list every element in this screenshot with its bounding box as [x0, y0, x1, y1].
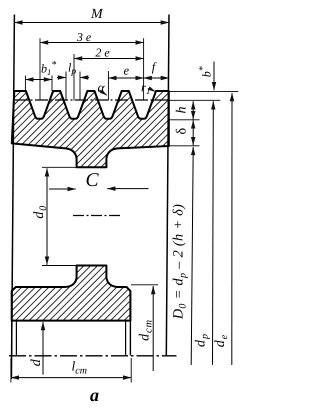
- dimension line dp: [212, 101, 215, 365]
- hole axis dash-dot: [73, 215, 122, 217]
- dimension d_st hub diameter: [131, 284, 158, 286]
- dimension 2e: [73, 54, 75, 101]
- svg-text:d: d: [29, 358, 44, 366]
- dimension d bore: [42, 322, 44, 375]
- svg-text:h: h: [175, 107, 190, 114]
- dimension M: [14, 22, 169, 24]
- svg-text:D0 = dр – 2 (h + δ): D0 = dр – 2 (h + δ): [171, 204, 189, 320]
- web lower ring and hub section (hatched): [12, 266, 131, 321]
- hub right face below bore: [129, 321, 131, 356]
- dimension b*: [169, 90, 239, 92]
- svg-text:e: e: [124, 63, 130, 77]
- dimension C web thickness: [49, 188, 76, 190]
- groove bottom extension line: [169, 119, 200, 121]
- r1 leader arrow: [150, 89, 155, 92]
- dimension f: [144, 77, 169, 79]
- alpha leader arrow: [100, 90, 107, 95]
- dimension line D0: [191, 147, 193, 365]
- svg-text:α: α: [98, 80, 106, 95]
- rim inner extension line: [169, 145, 200, 147]
- rim section with V-grooves (hatched): [12, 91, 169, 167]
- dimension delta: [192, 120, 194, 145]
- svg-text:δ: δ: [175, 128, 190, 135]
- svg-text:3 e: 3 e: [76, 30, 92, 44]
- main axis dash-dot: [9, 355, 177, 357]
- bore chamfer edge left: [15, 321, 17, 355]
- dimension 3e: [39, 38, 41, 100]
- svg-text:а: а: [90, 385, 99, 405]
- svg-text:2 e: 2 e: [95, 46, 110, 60]
- dimension lp pitch width: [65, 72, 67, 101]
- dimension d0 hole diameter: [42, 166, 77, 168]
- dimension b1* groove top width: [24, 76, 26, 92]
- bore chamfer edge right: [125, 321, 127, 355]
- svg-text:M: M: [90, 7, 104, 22]
- left face line: [11, 15, 14, 380]
- pitch centerline dash-dot: [15, 99, 169, 101]
- hub left face below bore: [11, 321, 13, 356]
- dimension l_st hub length: [10, 358, 12, 383]
- svg-text:C: C: [85, 170, 99, 191]
- dimension line de: [231, 93, 233, 365]
- dimension e: [107, 71, 109, 101]
- dimension h: [192, 101, 194, 119]
- right face line: [166, 15, 169, 356]
- pitch extension line right: [169, 99, 221, 101]
